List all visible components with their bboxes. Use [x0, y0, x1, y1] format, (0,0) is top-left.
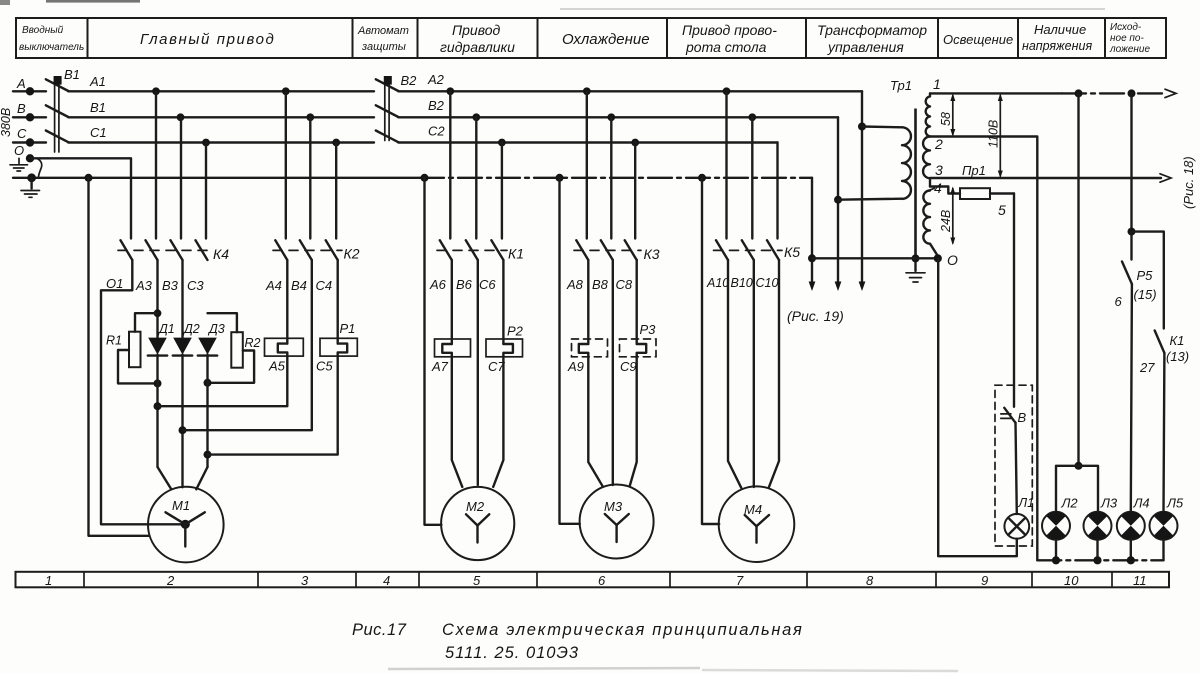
wire B10 to motor M4 [753, 260, 755, 487]
svg-text:Рис.17: Рис.17 [352, 621, 407, 639]
svg-text:Д1: Д1 [157, 322, 175, 336]
dashed enclosure (lighting unit) [995, 385, 1032, 546]
svg-text:3: 3 [935, 162, 943, 178]
svg-text:Автомат: Автомат [357, 25, 409, 37]
svg-text:К1: К1 [508, 246, 524, 262]
svg-text:Д3: Д3 [207, 322, 225, 336]
svg-text:А6: А6 [429, 277, 447, 292]
neutral terminal O [14, 143, 34, 163]
svg-text:О1: О1 [106, 276, 123, 291]
wire neutral drop to motor M2 frame [425, 178, 442, 525]
ground at neutral bus [21, 178, 40, 198]
svg-text:напряжения: напряжения [1022, 39, 1092, 53]
svg-text:Л1: Л1 [1018, 496, 1035, 510]
svg-text:380В: 380В [0, 108, 13, 137]
svg-text:А9: А9 [567, 359, 584, 374]
svg-text:М4: М4 [744, 502, 762, 517]
thermal element C7 / P2 [486, 260, 524, 374]
svg-text:С4: С4 [316, 278, 333, 293]
wire B6 to motor M2 [477, 260, 479, 485]
svg-text:М2: М2 [466, 499, 485, 514]
phase terminal A 380V [13, 76, 46, 96]
svg-text:А10: А10 [706, 276, 729, 290]
wire B3 (K4 through D2 to motor) [179, 260, 187, 487]
svg-text:1: 1 [933, 76, 941, 92]
svg-text:М3: М3 [604, 499, 623, 514]
wire initial-position column feed [1128, 93, 1164, 328]
svg-text:Р5: Р5 [1137, 268, 1154, 283]
motor M2 [441, 487, 514, 560]
signal lamp L2 [1042, 496, 1078, 540]
signal lamp L4 [1117, 496, 1150, 540]
neutral bus O [13, 173, 812, 182]
svg-text:С5: С5 [316, 359, 333, 374]
wire A7 to motor M2 [452, 357, 463, 487]
svg-text:Л2: Л2 [1061, 496, 1079, 511]
svg-text:В6: В6 [456, 277, 473, 292]
motor M1 [148, 487, 224, 563]
svg-text:С2: С2 [428, 124, 445, 139]
svg-text:Главный привод: Главный привод [140, 31, 275, 48]
svg-text:Схема электрическая принципи: Схема электрическая принципиальная [442, 621, 804, 639]
scan artifact bottom smudge [388, 668, 958, 671]
reference strip [16, 572, 1170, 588]
wire C7 to motor M2 [493, 357, 503, 487]
signal lamp L3 [1084, 496, 1118, 540]
svg-text:А1: А1 [89, 74, 106, 89]
svg-text:6: 6 [598, 573, 606, 588]
tap 2 wire to lamp return [930, 136, 1037, 560]
svg-text:Л5: Л5 [1166, 496, 1184, 511]
svg-text:110В: 110В [987, 120, 1001, 148]
svg-text:О: О [947, 252, 958, 268]
svg-text:Р2: Р2 [507, 324, 524, 339]
svg-text:(15): (15) [1134, 287, 1157, 302]
svg-text:10: 10 [1064, 573, 1079, 588]
svg-text:58: 58 [939, 112, 953, 126]
dimension 58 [939, 93, 955, 136]
svg-text:К1: К1 [1170, 333, 1185, 348]
wire lighting feed 5 [1013, 194, 1015, 407]
wire neutral drop to motor M4 frame [702, 178, 719, 524]
wire A5 to node (brake phase A) [158, 356, 288, 406]
label (Ris.19) [787, 308, 844, 324]
svg-text:Привод: Привод [452, 22, 501, 38]
svg-text:(13): (13) [1166, 349, 1189, 364]
label (Ris.18) [1181, 156, 1196, 209]
svg-text:R1: R1 [106, 334, 122, 348]
svg-text:Тр1: Тр1 [890, 78, 912, 93]
svg-text:В1: В1 [64, 67, 80, 82]
svg-text:Д2: Д2 [182, 322, 200, 336]
svg-text:(Рис. 19): (Рис. 19) [787, 308, 844, 324]
jumper O to neutral bus [37, 158, 42, 178]
wire O1 from K4 to motor M1 center [101, 260, 185, 524]
svg-text:6: 6 [1115, 294, 1123, 309]
phase terminal C [13, 126, 46, 147]
thermal element C5 / P1 [316, 260, 357, 374]
bus C2 [398, 124, 777, 147]
wire A9 to motor M3 [588, 357, 603, 487]
svg-text:С10: С10 [756, 276, 779, 290]
svg-text:С1: С1 [90, 125, 107, 140]
contactor K4 (main drive, 4 poles) [118, 91, 229, 293]
resistor R2 [204, 313, 261, 387]
signal lamp L5 [1150, 496, 1184, 540]
contactor K5 (table rotation) [706, 91, 800, 290]
svg-text:В2: В2 [401, 73, 418, 88]
wire O line to K4 pole O1 [30, 158, 131, 238]
switch V (lighting) [1001, 408, 1027, 425]
wire neutral drop to Ris.19 [808, 178, 816, 291]
svg-text:5: 5 [998, 202, 1006, 218]
svg-text:Трансформатор: Трансформатор [817, 22, 927, 38]
svg-text:М1: М1 [172, 498, 190, 513]
svg-text:ное по-: ное по- [1110, 33, 1144, 44]
resistor R1 [106, 313, 162, 387]
contactor K3 (cooling) [566, 91, 660, 292]
svg-text:Наличие: Наличие [1034, 22, 1086, 37]
svg-text:Вводный: Вводный [22, 25, 64, 36]
svg-text:Л3: Л3 [1100, 496, 1118, 511]
wire B2 drop to transformer primary and Ris.19 [834, 117, 902, 291]
svg-text:Р3: Р3 [640, 322, 657, 337]
svg-text:Привод прово-: Привод прово- [682, 22, 777, 38]
thermal element A5 [265, 260, 304, 374]
svg-text:рота стола: рота стола [685, 39, 767, 55]
svg-text:5111. 25. 010Э3: 5111. 25. 010Э3 [445, 644, 579, 662]
svg-text:О: О [14, 143, 24, 158]
motor M3 [580, 485, 654, 559]
bus B2 [398, 98, 838, 121]
contact P5 [1115, 232, 1157, 512]
svg-text:24В: 24В [939, 210, 953, 233]
svg-text:8: 8 [866, 573, 874, 588]
tap 4 and fuse Pr1 [930, 180, 1014, 218]
wire B8 to motor M3 [612, 260, 614, 485]
wire A3 (K4 to diode D1) [154, 260, 162, 338]
svg-text:С9: С9 [620, 359, 637, 374]
title block header row [16, 18, 1166, 58]
svg-text:9: 9 [981, 573, 988, 588]
contactor K1 (hydraulics) [429, 91, 524, 292]
wire B4 to node (brake phase B) [183, 260, 312, 430]
svg-text:Исход-: Исход- [1110, 22, 1142, 33]
svg-text:А5: А5 [268, 359, 286, 374]
contact K1 (13) [1139, 331, 1189, 512]
svg-text:27: 27 [1139, 360, 1155, 375]
svg-text:А2: А2 [427, 72, 445, 87]
svg-text:В3: В3 [162, 278, 179, 293]
thermal element A9 [567, 260, 608, 374]
bus C1 [68, 125, 374, 146]
bus B1 [68, 100, 374, 121]
svg-text:В4: В4 [291, 278, 307, 293]
svg-text:ложение: ложение [1109, 44, 1150, 55]
svg-text:В2: В2 [428, 98, 445, 113]
svg-text:выключатель: выключатель [19, 42, 84, 53]
wire voltage-presence column feed [1056, 93, 1098, 511]
svg-text:3: 3 [301, 573, 309, 588]
svg-text:А7: А7 [431, 359, 449, 374]
diode D1 [148, 322, 175, 356]
svg-text:гидравлики: гидравлики [440, 39, 515, 55]
wire C5 to node (brake phase C) [208, 356, 338, 455]
diode D2 [173, 322, 200, 356]
scan artifact top streak [0, 0, 1105, 9]
svg-text:А8: А8 [566, 277, 584, 292]
svg-text:К5: К5 [784, 244, 800, 260]
svg-text:В: В [1018, 410, 1027, 425]
svg-text:В10: В10 [731, 276, 753, 290]
svg-text:С: С [17, 126, 27, 141]
svg-text:2: 2 [166, 573, 175, 588]
svg-text:С6: С6 [479, 277, 496, 292]
svg-text:А: А [16, 76, 26, 91]
wire A2 drop to transformer primary and Ris.19 [858, 91, 902, 291]
thermal element A7 [431, 260, 471, 374]
svg-text:С8: С8 [616, 277, 633, 292]
thermal element C9 / P3 [620, 260, 657, 374]
contactor K2 (brake, 3 poles) [265, 91, 360, 293]
svg-text:7: 7 [736, 573, 744, 588]
lamp L1 [1004, 423, 1034, 539]
svg-text:управления: управления [827, 39, 904, 55]
svg-text:4: 4 [934, 180, 942, 196]
svg-text:А4: А4 [265, 278, 282, 293]
svg-text:В: В [17, 101, 26, 116]
tap 3 line to Ris.18 [930, 162, 1171, 182]
svg-text:R2: R2 [245, 336, 261, 350]
motor M4 [719, 486, 795, 562]
wire C10 to motor M4 [769, 260, 779, 488]
bus A2 [398, 72, 862, 95]
svg-text:1: 1 [45, 573, 52, 588]
dimension 24V [939, 187, 955, 246]
380V label [0, 108, 13, 137]
node O of transformer secondary [812, 252, 958, 268]
tap 1 line (110V feed) [930, 76, 1176, 98]
svg-text:К3: К3 [644, 246, 660, 262]
svg-text:11: 11 [1133, 573, 1147, 588]
svg-text:С3: С3 [187, 278, 204, 293]
svg-text:Пр1: Пр1 [962, 163, 986, 178]
svg-text:2: 2 [934, 136, 943, 152]
wire C9 to motor M3 [630, 357, 637, 487]
svg-text:Охлаждение: Охлаждение [562, 31, 650, 48]
svg-text:К4: К4 [213, 246, 229, 262]
switch V2 (protection breaker) [376, 73, 417, 142]
svg-text:К2: К2 [344, 246, 360, 262]
wire neutral drop to motor M3 frame [560, 178, 580, 524]
svg-text:А3: А3 [135, 278, 153, 293]
svg-text:(Рис. 18): (Рис. 18) [1181, 156, 1196, 209]
ground at transformer core [906, 254, 925, 282]
switch V1 (main isolator) [46, 67, 80, 152]
wire A10 to motor M4 [728, 260, 741, 488]
svg-text:Л4: Л4 [1133, 496, 1150, 511]
wire C3 lower (D3 to motor M1) [196, 355, 211, 490]
caption [352, 621, 804, 662]
svg-text:В8: В8 [592, 277, 609, 292]
diode D3 [198, 322, 225, 356]
svg-text:4: 4 [383, 573, 390, 588]
svg-text:защиты: защиты [361, 41, 406, 53]
wire neutral drop to motor M1 frame [89, 178, 150, 536]
lamp return bus [1037, 540, 1163, 565]
dimension 110V [987, 93, 1003, 178]
bus A1 [68, 74, 374, 95]
svg-text:В1: В1 [90, 100, 106, 115]
wire A3 lower (D1 to motor M1) [154, 355, 172, 490]
svg-text:Освещение: Освещение [943, 32, 1013, 47]
small ground at O terminal [10, 158, 28, 171]
svg-text:Р1: Р1 [340, 321, 356, 336]
wire L1 return to O [938, 258, 1017, 556]
transformer Tr1 [890, 78, 938, 258]
phase terminal B [13, 101, 46, 122]
svg-text:5: 5 [473, 573, 481, 588]
